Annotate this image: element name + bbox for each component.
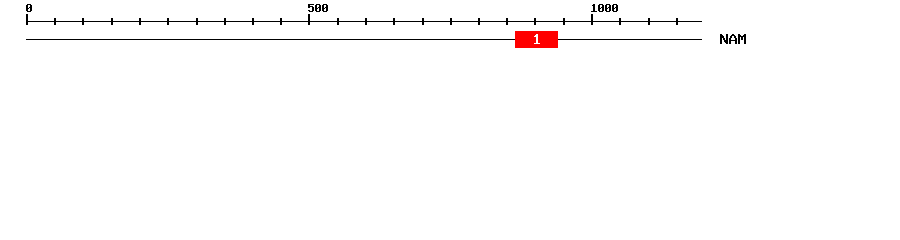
minor tick 150: [111, 18, 113, 25]
major tick 500: [308, 14, 310, 25]
major tick 0: [26, 14, 28, 25]
sequence backbone line: [26, 39, 702, 40]
minor tick 1100: [648, 18, 650, 25]
minor tick 250: [167, 18, 169, 25]
minor tick 700: [422, 18, 424, 25]
minor tick 350: [224, 18, 226, 25]
minor tick 1050: [619, 18, 621, 25]
minor tick 600: [365, 18, 367, 25]
ruler line: [26, 21, 702, 22]
minor tick 900: [534, 18, 536, 25]
sequence name NAM: [720, 34, 746, 44]
background: [0, 0, 900, 58]
minor tick 650: [393, 18, 395, 25]
domain box label 1: [534, 34, 540, 44]
minor tick 1150: [676, 18, 678, 25]
minor tick 950: [563, 18, 565, 25]
minor tick 50: [54, 18, 56, 25]
minor tick 400: [252, 18, 254, 25]
minor tick 200: [139, 18, 141, 25]
minor tick 850: [506, 18, 508, 25]
minor tick 750: [450, 18, 452, 25]
minor tick 800: [478, 18, 480, 25]
minor tick 450: [280, 18, 282, 25]
ruler label 1000: [591, 4, 618, 12]
minor tick 100: [82, 18, 84, 25]
minor tick 550: [337, 18, 339, 25]
ruler label 500: [308, 4, 328, 12]
minor tick 300: [196, 18, 198, 25]
ruler label 0: [26, 4, 32, 12]
major tick 1000: [591, 14, 593, 25]
domain box 1 (red): [515, 31, 558, 48]
